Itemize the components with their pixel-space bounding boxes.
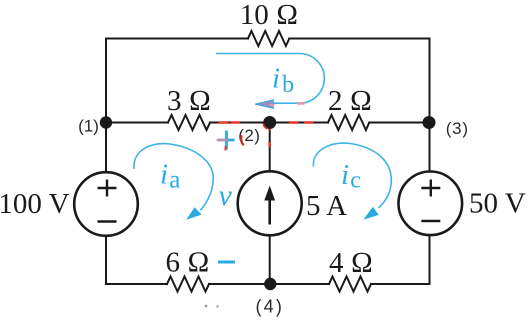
wire bottom right segment <box>371 283 430 285</box>
mesh current ia arc <box>134 144 213 211</box>
V2 plus sign <box>421 180 440 197</box>
polarity plus (cyan) near node 2 <box>218 131 235 150</box>
mesh current ic arc <box>313 143 391 208</box>
wire bottom center segment <box>209 283 329 285</box>
svg-text:4 Ω: 4 Ω <box>329 247 373 279</box>
svg-text:(1): (1) <box>78 116 99 135</box>
red edge on node 2 dot <box>263 123 267 129</box>
red dashed node2 highlight left <box>219 123 314 151</box>
wire right vertical upper <box>429 39 431 172</box>
resistor R 3ohm zigzag <box>168 115 210 130</box>
mesh current ia arrowhead <box>186 207 201 220</box>
V1 plus sign <box>98 180 117 197</box>
speckle dots <box>205 305 208 308</box>
I1 arrow up <box>264 186 275 225</box>
resistor R 2ohm zigzag <box>328 115 369 130</box>
resistor R 4ohm zigzag <box>329 277 371 292</box>
pink dash over plus arm <box>217 139 229 141</box>
node 2 junction dot <box>263 116 276 129</box>
red dashed node2 highlight right <box>289 121 299 124</box>
wire top-left horizontal <box>106 38 248 40</box>
resistor R 10ohm zigzag <box>248 31 289 46</box>
mesh current ib loop <box>216 54 324 104</box>
wire left vertical lower <box>105 236 107 284</box>
current source I1 5A circle <box>238 171 302 235</box>
svg-text:2 Ω: 2 Ω <box>328 85 372 117</box>
pink dash at ib arrowhead <box>270 104 275 106</box>
wire middle center segment <box>210 122 328 124</box>
mesh current ib arrowhead <box>255 100 273 109</box>
wire center vertical lower <box>269 236 271 285</box>
V2 minus sign <box>421 220 440 222</box>
red dash below plus sign <box>225 146 227 151</box>
wire middle left segment <box>106 122 168 124</box>
voltage source V1 100V circle <box>74 172 138 236</box>
mesh current ic arrowhead <box>363 207 379 220</box>
wire bottom left segment <box>106 283 167 285</box>
voltage source V2 50V circle <box>399 172 463 236</box>
svg-text:(3): (3) <box>446 119 469 138</box>
V1 minus sign <box>98 220 117 222</box>
svg-text:10 Ω: 10 Ω <box>240 0 299 31</box>
svg-text:5 A: 5 A <box>306 190 347 222</box>
red partial paren overlay on (2) <box>241 135 243 145</box>
wire left vertical upper <box>105 39 107 173</box>
wire center vertical upper <box>269 123 271 172</box>
svg-text:6 Ω: 6 Ω <box>165 247 209 279</box>
wire right vertical lower <box>429 236 431 285</box>
red dashed node2 highlight below <box>268 142 271 147</box>
node 3 junction dot <box>423 116 436 129</box>
pink dash on ib curve <box>297 102 305 105</box>
resistor R 6ohm zigzag <box>167 277 209 292</box>
svg-text:50 V: 50 V <box>469 188 526 220</box>
polarity minus (cyan) near 6 ohm <box>218 261 235 264</box>
svg-text:100 V: 100 V <box>0 188 70 220</box>
node 4 junction dot <box>264 278 276 290</box>
svg-text:(4): (4) <box>255 296 284 316</box>
svg-text:v: v <box>219 179 233 212</box>
wire middle right segment <box>369 122 429 124</box>
node 1 junction dot <box>100 116 112 128</box>
svg-text:3 Ω: 3 Ω <box>167 85 211 117</box>
wire top-right horizontal <box>289 38 429 40</box>
